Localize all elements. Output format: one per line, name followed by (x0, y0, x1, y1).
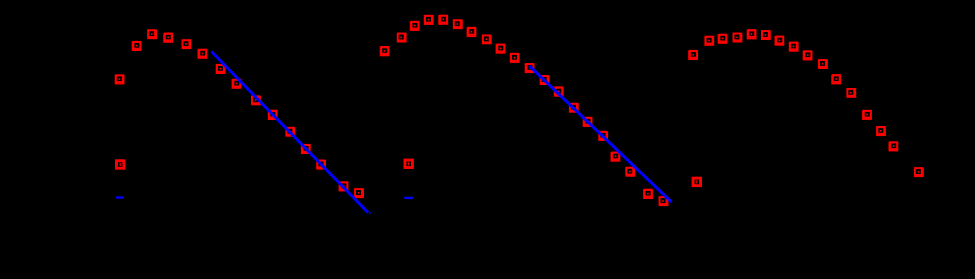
panel 2 power-law fit line (blue) (530, 66, 672, 202)
panel 3 legend marker (red open square) (693, 178, 701, 186)
panel 2 data point 9 (red open square) (497, 45, 505, 53)
panel 2 legend marker (red open square) (405, 160, 413, 168)
panel 3 data point 7 (red open square) (775, 37, 783, 45)
panel 3 data point 11 (red open square) (832, 75, 840, 84)
panel 1 data point 9 (red open square) (252, 96, 260, 104)
panel 2 data point 14 (red open square) (570, 104, 578, 112)
panel 3 data point 6 (red open square) (762, 31, 770, 39)
panel 1 data point 3 (red open square) (148, 30, 156, 38)
panel 3 data point 2 (red open square) (705, 37, 713, 45)
panel 3 data point 10 (red open square) (819, 60, 827, 68)
panel 3 data point 13 (red open square) (863, 111, 871, 119)
panel 2 data point 10 (red open square) (511, 54, 519, 62)
panel 1 data point 8 (red open square) (233, 80, 241, 88)
panel 3 data point 8 (red open square) (790, 43, 798, 51)
panel 1 data point 5 (red open square) (183, 40, 191, 48)
panel 2 data point 15 (red open square) (584, 118, 592, 126)
panel 3 data point 5 (red open square) (748, 30, 756, 39)
panel 2 data point 12 (red open square) (541, 76, 549, 84)
panel 1 legend marker (red open square) (116, 161, 124, 169)
panel 2 legend line sample (blue dash) (404, 197, 413, 199)
panel 1 data point 10 (red open square) (269, 111, 277, 120)
panel 2 data point 3 (red open square) (411, 22, 419, 30)
panel 1 legend line sample (blue dash) (116, 196, 124, 198)
panel 2 data point 5 (red open square) (439, 16, 447, 24)
panel 3 data point 3 (red open square) (719, 35, 727, 43)
panel 1 fit line end dot (blue) (369, 212, 371, 214)
panel 2 data point 8 (red open square) (483, 35, 491, 43)
panel 1 data point 4 (red open square) (164, 33, 172, 42)
panel 3 data point 16 (red open square) (915, 168, 923, 176)
panel 2 data point 16 (red open square) (599, 132, 607, 140)
panel 2 data point 2 (red open square) (398, 34, 406, 42)
panel 3 data point 1 (red open square) (689, 51, 697, 59)
panel 2 data point 19 (red open square) (644, 190, 652, 199)
panel 2 data point 13 (red open square) (555, 87, 563, 96)
panel 2 data point 11 (red open square) (526, 64, 534, 72)
panel 3 data point 12 (red open square) (847, 89, 855, 97)
panel 1 data point 14 (red open square) (340, 182, 348, 190)
panel 2 data point 17 (red open square) (611, 153, 619, 161)
panel 2 data point 18 (red open square) (626, 168, 634, 176)
panel 1 data point 11 (red open square) (286, 128, 294, 136)
panel 1 data point 13 (red open square) (317, 160, 325, 168)
panel 3 data point 4 (red open square) (734, 34, 742, 42)
panel 1 data point 15 (red open square) (355, 189, 363, 197)
panel 1 data point 1 (red open square) (116, 75, 124, 83)
panel 2 data point 7 (red open square) (468, 28, 476, 37)
panel 2 data point 6 (red open square) (454, 20, 462, 28)
panel 1 data point 12 (red open square) (302, 145, 310, 153)
panel 3 data point 14 (red open square) (877, 127, 885, 135)
panel 2 data point 20 (red open square) (660, 197, 668, 205)
panel 1 data point 7 (red open square) (217, 65, 225, 73)
panel 1 power-law fit line (blue) (212, 52, 369, 213)
panel 2 data point 4 (red open square) (425, 16, 433, 24)
panel 3 data point 9 (red open square) (804, 51, 812, 59)
panel 2 data point 1 (red open square) (381, 47, 389, 56)
panel 3 data point 15 (red open square) (889, 142, 897, 150)
panel 1 data point 2 (red open square) (133, 42, 141, 50)
panel 1 data point 6 (red open square) (198, 50, 206, 58)
